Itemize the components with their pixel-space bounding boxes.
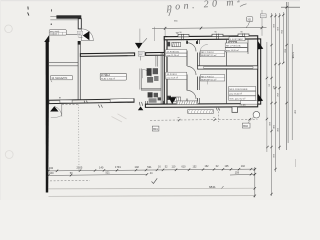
svg-text:201: 201 xyxy=(247,19,252,22)
svg-text:162: 162 xyxy=(205,165,210,168)
porch thin left lines xyxy=(50,16,77,20)
radiator top xyxy=(172,42,181,46)
svg-text:140: 140 xyxy=(99,165,104,169)
wall porch top xyxy=(56,15,81,18)
svg-text:BIUROWY 15 m²: BIUROWY 15 m² xyxy=(201,54,217,57)
door swing entrance arc xyxy=(82,29,94,41)
pencil marks faint xyxy=(112,114,127,122)
corridor wall x197.5 xyxy=(197,40,199,104)
svg-text:102: 102 xyxy=(135,165,140,169)
svg-text:90: 90 xyxy=(241,32,243,34)
window ticks on top wall xyxy=(182,33,245,40)
svg-text:pow. użytk.: pow. użytk. xyxy=(50,30,60,33)
svg-text:152: 152 xyxy=(193,165,198,168)
small box top with leader xyxy=(247,17,253,22)
hinge dot porch xyxy=(51,24,52,25)
dashed line mid xyxy=(150,119,258,120)
paper background xyxy=(0,0,300,200)
door tiny label xyxy=(77,31,82,35)
svg-text:90: 90 xyxy=(215,32,217,34)
svg-text:3 318: 3 318 xyxy=(291,52,294,59)
vertical end line bottom xyxy=(254,167,256,198)
door arcs corridor xyxy=(187,43,196,52)
svg-text:pow. 11,20 m²: pow. 11,20 m² xyxy=(167,54,180,57)
right wing top wall xyxy=(164,36,257,40)
dim row1 ticks xyxy=(47,168,256,172)
middle wall xyxy=(198,66,258,69)
window lintel left xyxy=(60,100,72,103)
door swing W-2 arc xyxy=(143,38,147,43)
left wing bottom wall xyxy=(49,99,134,104)
pencil checkmark xyxy=(152,178,158,183)
W-2 extension line xyxy=(139,29,141,43)
WC room bottom xyxy=(141,89,161,90)
faint long line A xyxy=(49,187,256,190)
radiator top right room xyxy=(229,42,237,46)
svg-text:20 SALA: 20 SALA xyxy=(101,74,111,77)
svg-text:NR 5. POKÓJ BIUR.: NR 5. POKÓJ BIUR. xyxy=(230,88,249,91)
dim row2 line xyxy=(49,174,148,175)
circle column xyxy=(253,111,260,118)
svg-text:B02: B02 xyxy=(243,124,248,128)
chase dark corner xyxy=(163,101,167,108)
svg-text:160: 160 xyxy=(49,172,54,175)
W-2 label box xyxy=(138,51,144,56)
extension lines top xyxy=(154,10,262,41)
door bottom-left arc xyxy=(55,106,62,116)
wall SALA top xyxy=(80,53,134,57)
dim ticks right column xyxy=(266,6,288,195)
svg-text:105: 105 xyxy=(225,165,230,168)
door swing W-2 triangle xyxy=(135,43,143,49)
svg-text:BIUROWY 15 m²: BIUROWY 15 m² xyxy=(201,78,217,81)
duct lines WC xyxy=(156,56,158,67)
leader line to door xyxy=(66,34,78,36)
label box entrance xyxy=(49,30,66,35)
black bar head wedge xyxy=(44,35,49,42)
door triangle top right xyxy=(258,41,263,49)
fixtures bottom-left right wing xyxy=(167,96,171,100)
WC fixtures xyxy=(140,69,141,90)
dim row2 ticks xyxy=(47,173,256,177)
svg-text:110: 110 xyxy=(172,166,176,169)
window lintel mid xyxy=(110,98,134,102)
punch hole top xyxy=(5,25,13,33)
registration marks top-left xyxy=(28,7,29,16)
svg-text:na_pia: na_pia xyxy=(240,105,247,107)
dim vertical lines right column xyxy=(266,42,268,152)
svg-text:SOC. pow. 8,2 m²: SOC. pow. 8,2 m² xyxy=(230,97,246,100)
dashed bottom-left xyxy=(50,180,90,182)
WC door arc xyxy=(142,69,151,78)
interior wall x226.4 xyxy=(225,40,227,104)
wall below entrance xyxy=(49,62,78,66)
door triangle bottom right wing xyxy=(169,97,177,104)
svg-text:pow. 16,40 m²: pow. 16,40 m² xyxy=(230,93,243,96)
label box room1 right xyxy=(200,51,224,57)
chase verticals xyxy=(161,53,163,105)
interior wall x248 xyxy=(247,40,249,54)
label boxes bottom right cluster xyxy=(229,87,256,91)
tick above porch xyxy=(51,9,53,11)
handwriting descender xyxy=(169,4,247,16)
dashed vertical mid xyxy=(218,108,220,122)
svg-text:NR 3. POKÓJ: NR 3. POKÓJ xyxy=(201,75,213,78)
svg-text:NR 1. POKÓJ B.: NR 1. POKÓJ B. xyxy=(226,44,241,47)
exterior steps hatched xyxy=(188,110,214,114)
door mid-bottom triangle xyxy=(138,106,143,110)
svg-text:6841: 6841 xyxy=(209,185,216,189)
svg-text:NR 2. POKÓJ: NR 2. POKÓJ xyxy=(201,51,213,54)
small box right top xyxy=(260,14,266,18)
svg-text:76,81·1,750 m²: 76,81·1,750 m² xyxy=(101,78,115,81)
svg-text:4. KORYTARZ: 4. KORYTARZ xyxy=(230,38,244,41)
ticks below bottom wall xyxy=(216,108,220,111)
svg-text:pow. 10,9 m²: pow. 10,9 m² xyxy=(167,77,179,80)
svg-text:521: 521 xyxy=(147,165,152,169)
svg-text:102: 102 xyxy=(49,166,54,170)
ticks on dashed line xyxy=(178,118,251,121)
dashed line below door xyxy=(62,103,79,105)
faint vertical right edge xyxy=(295,159,297,167)
svg-text:90: 90 xyxy=(180,32,182,34)
step verticals at door xyxy=(146,101,148,107)
door jamb nubs xyxy=(186,41,188,44)
svg-text:1791: 1791 xyxy=(115,165,121,169)
window ticks 9,6 xyxy=(84,101,103,108)
svg-text:pow. 14,20 m²: pow. 14,20 m² xyxy=(226,49,239,52)
svg-text:10. MAGAZYN: 10. MAGAZYN xyxy=(51,77,67,80)
radiator bottom xyxy=(172,97,181,101)
svg-text:521: 521 xyxy=(106,172,111,175)
box B02 xyxy=(242,123,250,128)
black bar left wall xyxy=(46,41,49,192)
top wall window bumps xyxy=(178,35,189,37)
dotted vertical left xyxy=(78,105,80,173)
svg-text:18. POKÓJ: 18. POKÓJ xyxy=(167,73,177,76)
svg-text:B01: B01 xyxy=(153,127,158,131)
right wing left wall xyxy=(164,37,167,105)
wall partition x78-80 xyxy=(78,41,80,100)
box B01 xyxy=(152,126,159,131)
label box room1 left a xyxy=(166,50,187,54)
bottom wall protrusion xyxy=(232,107,238,113)
label box small bottom xyxy=(241,101,258,105)
dim row1 line xyxy=(49,169,256,171)
label box MAGAZYN xyxy=(51,76,73,80)
fixtures lower room xyxy=(148,92,153,97)
lintel long rect xyxy=(204,67,254,69)
label box SALA xyxy=(100,73,126,80)
svg-text:610: 610 xyxy=(182,165,187,168)
top short line right xyxy=(281,6,300,8)
dot above wall xyxy=(59,97,60,98)
label box room2 left xyxy=(166,72,187,79)
label box room1 left b xyxy=(166,53,187,57)
right wing right wall xyxy=(258,39,261,104)
wall porch right upper xyxy=(78,19,81,29)
right wing bottom wall xyxy=(145,104,257,108)
svg-text:159: 159 xyxy=(235,172,240,175)
punch hole bottom xyxy=(5,151,13,159)
dimension line top xyxy=(152,27,267,30)
svg-text:1,50 1,50: 1,50 1,50 xyxy=(50,34,57,36)
door bottom-left triangle xyxy=(50,106,58,111)
door mid-bottom ticks xyxy=(139,102,142,106)
door triangle bottom right xyxy=(258,94,263,102)
rooms wall x187 xyxy=(186,40,188,104)
label boxes top right xyxy=(229,37,245,41)
faint long line B xyxy=(49,195,256,198)
interior steps hatch xyxy=(176,101,197,105)
svg-text:2105: 2105 xyxy=(77,166,83,170)
small dark cabinet top-left room xyxy=(167,42,171,47)
label box room2 right xyxy=(200,75,224,81)
svg-text:102: 102 xyxy=(241,165,246,168)
door swing entrance triangle xyxy=(83,31,90,40)
